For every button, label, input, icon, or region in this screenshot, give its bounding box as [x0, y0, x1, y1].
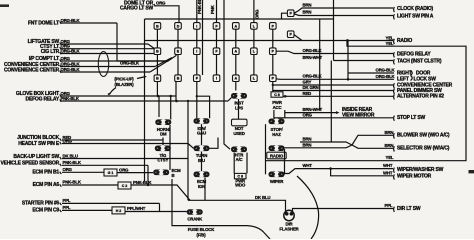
- pin L row2 col6: [251, 48, 258, 55]
- svg-text:BRN: BRN: [303, 137, 312, 142]
- node BLOWER SW (W/O A/C): [393, 133, 396, 138]
- wire GRY to convenience center: [273, 84, 393, 86]
- node WIPER MOTOR: [393, 174, 396, 179]
- svg-text:ECM PIN A6: ECM PIN A6: [33, 182, 60, 188]
- wire fuse block bottom lead: [172, 179, 270, 239]
- svg-text:CONVENIENCE CENTER: CONVENIENCE CENTER: [4, 67, 60, 73]
- wire ORG to stop lt sw: [274, 117, 393, 119]
- wire between pin rows col3: [196, 29, 198, 48]
- svg-text:B: B: [156, 24, 159, 28]
- fuse STOP/HAZ: [269, 119, 285, 125]
- svg-text:ORG: ORG: [255, 9, 260, 19]
- pin F row3 col3: [194, 75, 201, 82]
- wire ORG entering fuse block from top: [253, 0, 255, 23]
- svg-text:DEFOG RELAY: DEFOG RELAY: [397, 52, 431, 58]
- node SELECTOR SW (W/A/C): [393, 146, 396, 151]
- svg-text:B: B: [177, 77, 180, 81]
- pin A row1 col5: [233, 23, 240, 30]
- pin F row1 col4: [213, 23, 220, 30]
- svg-text:BACK-UP LIGHT SW: BACK-UP LIGHT SW: [13, 154, 59, 160]
- pin B row3 col2: [175, 75, 182, 82]
- svg-text:DK BLU: DK BLU: [255, 195, 270, 200]
- svg-text:CIG LTR: CIG LTR: [41, 49, 60, 55]
- svg-text:BRN-WHT: BRN-WHT: [303, 107, 323, 112]
- node DEFOG RELAY (right): [393, 52, 396, 57]
- svg-text:TACH (INST CLSTR): TACH (INST CLSTR): [397, 59, 442, 65]
- wire between pin rows col2: [177, 29, 179, 48]
- svg-text:(PICK-UP): (PICK-UP): [114, 77, 134, 82]
- pin P row2 col7: [270, 48, 277, 55]
- svg-text:WIPER MOTOR: WIPER MOTOR: [397, 174, 432, 180]
- svg-text:B/U: B/U: [198, 158, 205, 163]
- node CLOCK (RADIO): [393, 7, 396, 12]
- svg-text:WHT: WHT: [383, 163, 393, 168]
- node LIGHT SW PIN A: [393, 14, 396, 19]
- svg-text:PNK: PNK: [210, 4, 215, 14]
- wire BRN pair from pin F to clock and light sw: [294, 8, 393, 13]
- svg-text:ORG: ORG: [303, 112, 313, 117]
- junction dot at horn fuse feed: [169, 95, 172, 98]
- svg-text:CLOCK (RADIO): CLOCK (RADIO): [397, 6, 434, 12]
- svg-text:B: B: [156, 50, 159, 54]
- svg-text:ORG: ORG: [63, 167, 73, 172]
- pin D row1 col2: [175, 23, 182, 30]
- svg-text:STOP LT SW: STOP LT SW: [397, 115, 425, 121]
- wire between pin rows col6: [253, 29, 255, 48]
- wire RED to alternator: [284, 95, 394, 97]
- svg-text:I: I: [196, 24, 197, 28]
- fuse slot NOT USED: [232, 119, 248, 126]
- fuse INST LPS: [231, 93, 247, 99]
- pin B row1 col1: [154, 23, 161, 30]
- wire entering fuse block from top at col 4a: [223, 0, 225, 82]
- wire DK BLU run to flasher: [188, 200, 286, 211]
- wire ign col link down: [201, 124, 203, 146]
- svg-text:PPL: PPL: [63, 198, 71, 203]
- pin E row2 col2: [175, 48, 182, 55]
- svg-text:(F/B): (F/B): [196, 233, 206, 238]
- svg-text:ORG-BLK: ORG-BLK: [376, 68, 396, 73]
- svg-text:FUSE BLOCK: FUSE BLOCK: [188, 227, 215, 232]
- fuse RADIO: [269, 145, 285, 151]
- svg-text:D: D: [177, 24, 180, 28]
- wire ign/gau fuse feed: [196, 82, 198, 119]
- svg-text:VEHICLE SPEED SENSOR: VEHICLE SPEED SENSOR: [0, 160, 59, 166]
- wire ORG-BLK pair to door lock switches: [347, 41, 349, 80]
- wire between pin rows col1: [156, 29, 158, 48]
- wire horn/dm fuse feed left: [156, 82, 158, 97]
- svg-text:LIGHT SW PIN A: LIGHT SW PIN A: [397, 14, 434, 20]
- svg-text:ALTERNATOR PIN #2: ALTERNATOR PIN #2: [397, 94, 444, 100]
- svg-text:I: I: [196, 50, 197, 54]
- wire stop/haz radio wiper left link: [265, 124, 267, 174]
- wire vertical feed to blower pair: [330, 61, 332, 143]
- wire ORG-BLK pin P row3 to junction: [276, 78, 394, 81]
- svg-text:WHT: WHT: [303, 163, 313, 168]
- wire col2 mid vertical: [175, 82, 177, 102]
- svg-text:WDO: WDO: [235, 182, 246, 187]
- wire stub from pin F upper to top edge: [282, 13, 288, 19]
- svg-text:FLASHER: FLASHER: [279, 226, 299, 231]
- pin A row2 col5: [233, 48, 240, 55]
- svg-text:ECM PIN C9: ECM PIN C9: [32, 208, 59, 214]
- node WIPER/WASHER SW: [393, 168, 396, 173]
- svg-text:CRANK: CRANK: [187, 217, 203, 222]
- svg-text:RADIO: RADIO: [397, 38, 412, 44]
- pin B row3 col1: [154, 75, 161, 82]
- pin B row2 col1: [154, 48, 161, 55]
- wire DK GRN to panel dimmer sw: [273, 90, 393, 92]
- wire PNK entering fuse block from top: [216, 0, 218, 23]
- pin I row2 col3: [194, 48, 201, 55]
- wire BRN-WHT to inside rear view mirror: [285, 112, 336, 114]
- svg-text:LPS: LPS: [235, 106, 243, 111]
- svg-text:ECM PIN B1: ECM PIN B1: [32, 170, 59, 176]
- svg-text:YEL: YEL: [386, 35, 394, 40]
- wire ORG-BLK from FNT DOME LT down and right: [116, 23, 118, 61]
- svg-text:PNK-BLK: PNK-BLK: [63, 160, 82, 165]
- svg-text:GRY: GRY: [303, 80, 312, 85]
- svg-text:BRN: BRN: [385, 143, 394, 148]
- scan mark right edge: [469, 170, 474, 173]
- wire ORG-BLK to defog relay: [276, 51, 393, 53]
- svg-text:G 1: G 1: [108, 171, 114, 175]
- svg-text:USED: USED: [233, 131, 244, 136]
- svg-text:BRN-WHT: BRN-WHT: [303, 55, 323, 60]
- svg-text:H 2: H 2: [116, 209, 122, 213]
- wire YEL to radio: [350, 40, 393, 42]
- svg-text:DK GRN: DK GRN: [303, 85, 319, 90]
- svg-text:SELECTOR SW (W/A/C): SELECTOR SW (W/A/C): [397, 146, 450, 152]
- svg-text:PNK-BLK: PNK-BLK: [63, 180, 82, 185]
- pin F row2 col4: [213, 48, 220, 55]
- svg-text:RIGHT: RIGHT: [397, 70, 412, 76]
- svg-text:GAU: GAU: [197, 130, 206, 135]
- fuse T/G CTSY: [155, 146, 171, 152]
- flasher DIR FLASHER: [284, 210, 294, 220]
- harness loop ellipse: [98, 52, 108, 77]
- svg-text:B: B: [172, 173, 175, 178]
- wire BRN-WHT to tach: [334, 60, 394, 62]
- fuse WIPER: [269, 172, 285, 178]
- svg-text:A: A: [234, 24, 237, 28]
- wire ecm ign fuse bottom drop: [204, 178, 206, 201]
- pin I row1 col3: [194, 23, 201, 30]
- wire dk blu vertical to flasher run: [187, 101, 189, 200]
- svg-text:PPL: PPL: [385, 203, 393, 208]
- svg-text:IGN: IGN: [198, 184, 205, 189]
- pin P row3 col7: [270, 75, 277, 82]
- svg-text:HEADLT SW PIN E: HEADLT SW PIN E: [18, 141, 60, 147]
- wire WHT to wiper/washer sw: [331, 168, 393, 170]
- svg-text:A: A: [234, 50, 237, 54]
- junction dot on defog wire: [175, 100, 178, 103]
- svg-text:DEFOG RELAY: DEFOG RELAY: [26, 96, 60, 102]
- wire BRN pair to blower and selector switches: [300, 142, 352, 145]
- wire PNK-BLK entering fuse block from top: [196, 0, 198, 23]
- pin F lower (YEL feed): [287, 31, 294, 38]
- node RADIO: [393, 39, 396, 44]
- fuse block outline (F/B): [145, 18, 334, 20]
- svg-text:DOOR: DOOR: [416, 70, 431, 76]
- fuse block right edge wire down to TACH: [333, 19, 335, 61]
- svg-text:C 8: C 8: [274, 93, 280, 97]
- svg-text:ORG-BLK: ORG-BLK: [61, 67, 81, 72]
- svg-text:DK BLU: DK BLU: [63, 153, 78, 158]
- svg-text:WHT: WHT: [383, 170, 393, 175]
- wire horn col link down: [162, 138, 164, 146]
- node PANEL DIMMER SW: [393, 89, 396, 94]
- svg-text:ACC: ACC: [273, 105, 282, 110]
- connector G1: [104, 169, 117, 176]
- svg-text:ORG: ORG: [156, 0, 166, 5]
- wire WHT to wiper motor: [331, 169, 393, 176]
- pin L row1 col6: [251, 23, 258, 30]
- svg-text:HAZ: HAZ: [272, 132, 281, 137]
- wire inst lps fuse feed: [235, 82, 237, 91]
- wire stub from pin F lower: [294, 35, 302, 41]
- svg-text:B: B: [156, 77, 159, 81]
- svg-text:C 2: C 2: [122, 184, 128, 188]
- svg-text:RED: RED: [303, 91, 312, 96]
- wire inst lps to not used link: [238, 99, 240, 119]
- junction dot on bus wire: [346, 39, 349, 42]
- fuse CRANK: [187, 209, 203, 215]
- junction dot on wht wire: [329, 167, 332, 170]
- fuse HORN/DM: [155, 119, 171, 125]
- svg-text:ORG-BLK: ORG-BLK: [61, 18, 81, 23]
- pin I row3 col4: [213, 75, 220, 82]
- svg-text:PPL: PPL: [63, 205, 71, 210]
- pin F upper (BRN feed): [287, 10, 294, 17]
- svg-text:ORG-BLK: ORG-BLK: [61, 48, 81, 53]
- svg-text:RADIO: RADIO: [270, 153, 284, 158]
- node DIR LT SW: [393, 207, 396, 212]
- connector H2: [112, 207, 125, 214]
- wire horn/dm fuse feed right: [170, 96, 172, 120]
- svg-text:BRN: BRN: [385, 130, 394, 135]
- fuse HTR A/C: [231, 147, 247, 153]
- node TACH (INST CLSTR): [393, 59, 396, 64]
- svg-text:PNK-BL: PNK-BL: [197, 0, 202, 14]
- wire vertical inside fuse block right area: [319, 19, 321, 111]
- svg-text:ORG: ORG: [63, 138, 73, 143]
- wire WHT from wiper fuse: [284, 169, 331, 174]
- svg-text:I: I: [216, 77, 217, 81]
- fuse TURN B/U: [194, 146, 210, 152]
- wire between pin rows col4: [216, 29, 218, 48]
- svg-text:STARTER PIN #6: STARTER PIN #6: [22, 201, 60, 207]
- wire between pin rows col5: [235, 29, 237, 48]
- svg-text:FNT DOME LT: FNT DOME LT: [28, 20, 59, 26]
- wire radio to wiper right ends link: [284, 149, 286, 174]
- junction dot on glove box wire: [157, 95, 160, 98]
- wire starter pin drop to crank wire: [159, 203, 161, 211]
- svg-text:YEL: YEL: [386, 41, 394, 46]
- svg-text:BRN: BRN: [303, 2, 312, 7]
- pin A row3 col5: [233, 75, 240, 82]
- svg-text:PPL/WHT: PPL/WHT: [127, 206, 146, 211]
- svg-text:DM: DM: [160, 132, 167, 137]
- fuse PWR ACC connector C8: [271, 92, 283, 97]
- fuse PWR WDO connector C8: [233, 153, 235, 174]
- wire turn b/u right end link: [210, 138, 219, 149]
- wire htr a/c fuse feed: [224, 82, 230, 150]
- wire entering fuse block from top at col 3a: [202, 0, 204, 75]
- node ALTERNATOR PIN #2: [393, 94, 396, 99]
- svg-text:WIPER/WASHER SW: WIPER/WASHER SW: [397, 167, 444, 173]
- svg-text:ORG-BLK: ORG-BLK: [303, 48, 323, 53]
- bus wire inside fuse block: [145, 40, 351, 42]
- pin L row3 col6: [251, 75, 258, 82]
- wire PPL from flasher to dir lt sw: [293, 209, 394, 212]
- junction dot ign/gau feed: [196, 95, 198, 97]
- svg-text:ORG: ORG: [119, 167, 129, 172]
- wire between pin rows col7: [272, 29, 274, 48]
- svg-text:(BLAZER): (BLAZER): [114, 82, 134, 87]
- scan mark top left corner: [0, 4, 9, 7]
- pin P row1 col7: [270, 23, 277, 30]
- node STOP LT SW: [393, 116, 396, 121]
- svg-text:CARGO LT SW: CARGO LT SW: [120, 6, 153, 12]
- svg-text:ORG-BLK: ORG-BLK: [61, 61, 81, 66]
- steering column lead-out arc: [297, 176, 319, 239]
- svg-text:CTSY: CTSY: [157, 157, 168, 162]
- svg-text:BLOWER SW (W/O A/C): BLOWER SW (W/O A/C): [397, 133, 450, 139]
- wire horn col right link down: [169, 125, 171, 170]
- fuse IGN/GAU: [194, 118, 210, 124]
- svg-text:A: A: [234, 77, 237, 81]
- fuse ECM B: [153, 170, 169, 176]
- svg-text:ORG-BLK: ORG-BLK: [376, 74, 396, 79]
- svg-text:ORG: ORG: [61, 56, 71, 61]
- wire entering fuse block right edge from top: [333, 0, 335, 19]
- svg-text:YEL: YEL: [386, 155, 394, 160]
- svg-text:WIPER: WIPER: [270, 179, 284, 184]
- svg-text:PNK-BLK: PNK-BLK: [61, 96, 80, 101]
- connector C2: [118, 182, 131, 189]
- fuse ECM IGN: [194, 172, 210, 178]
- svg-text:DIR LT SW: DIR LT SW: [397, 206, 421, 212]
- svg-text:ORG-BLK: ORG-BLK: [303, 74, 323, 79]
- wire pwr acc fuse feed: [272, 82, 274, 92]
- svg-text:A/C: A/C: [236, 157, 243, 162]
- svg-text:BRN: BRN: [303, 143, 312, 148]
- wire vehicle speed sensor drop to ECM A6 wire: [147, 165, 149, 185]
- svg-text:BRN: BRN: [303, 10, 312, 15]
- node CONVENIENCE CENTER (right): [393, 83, 396, 88]
